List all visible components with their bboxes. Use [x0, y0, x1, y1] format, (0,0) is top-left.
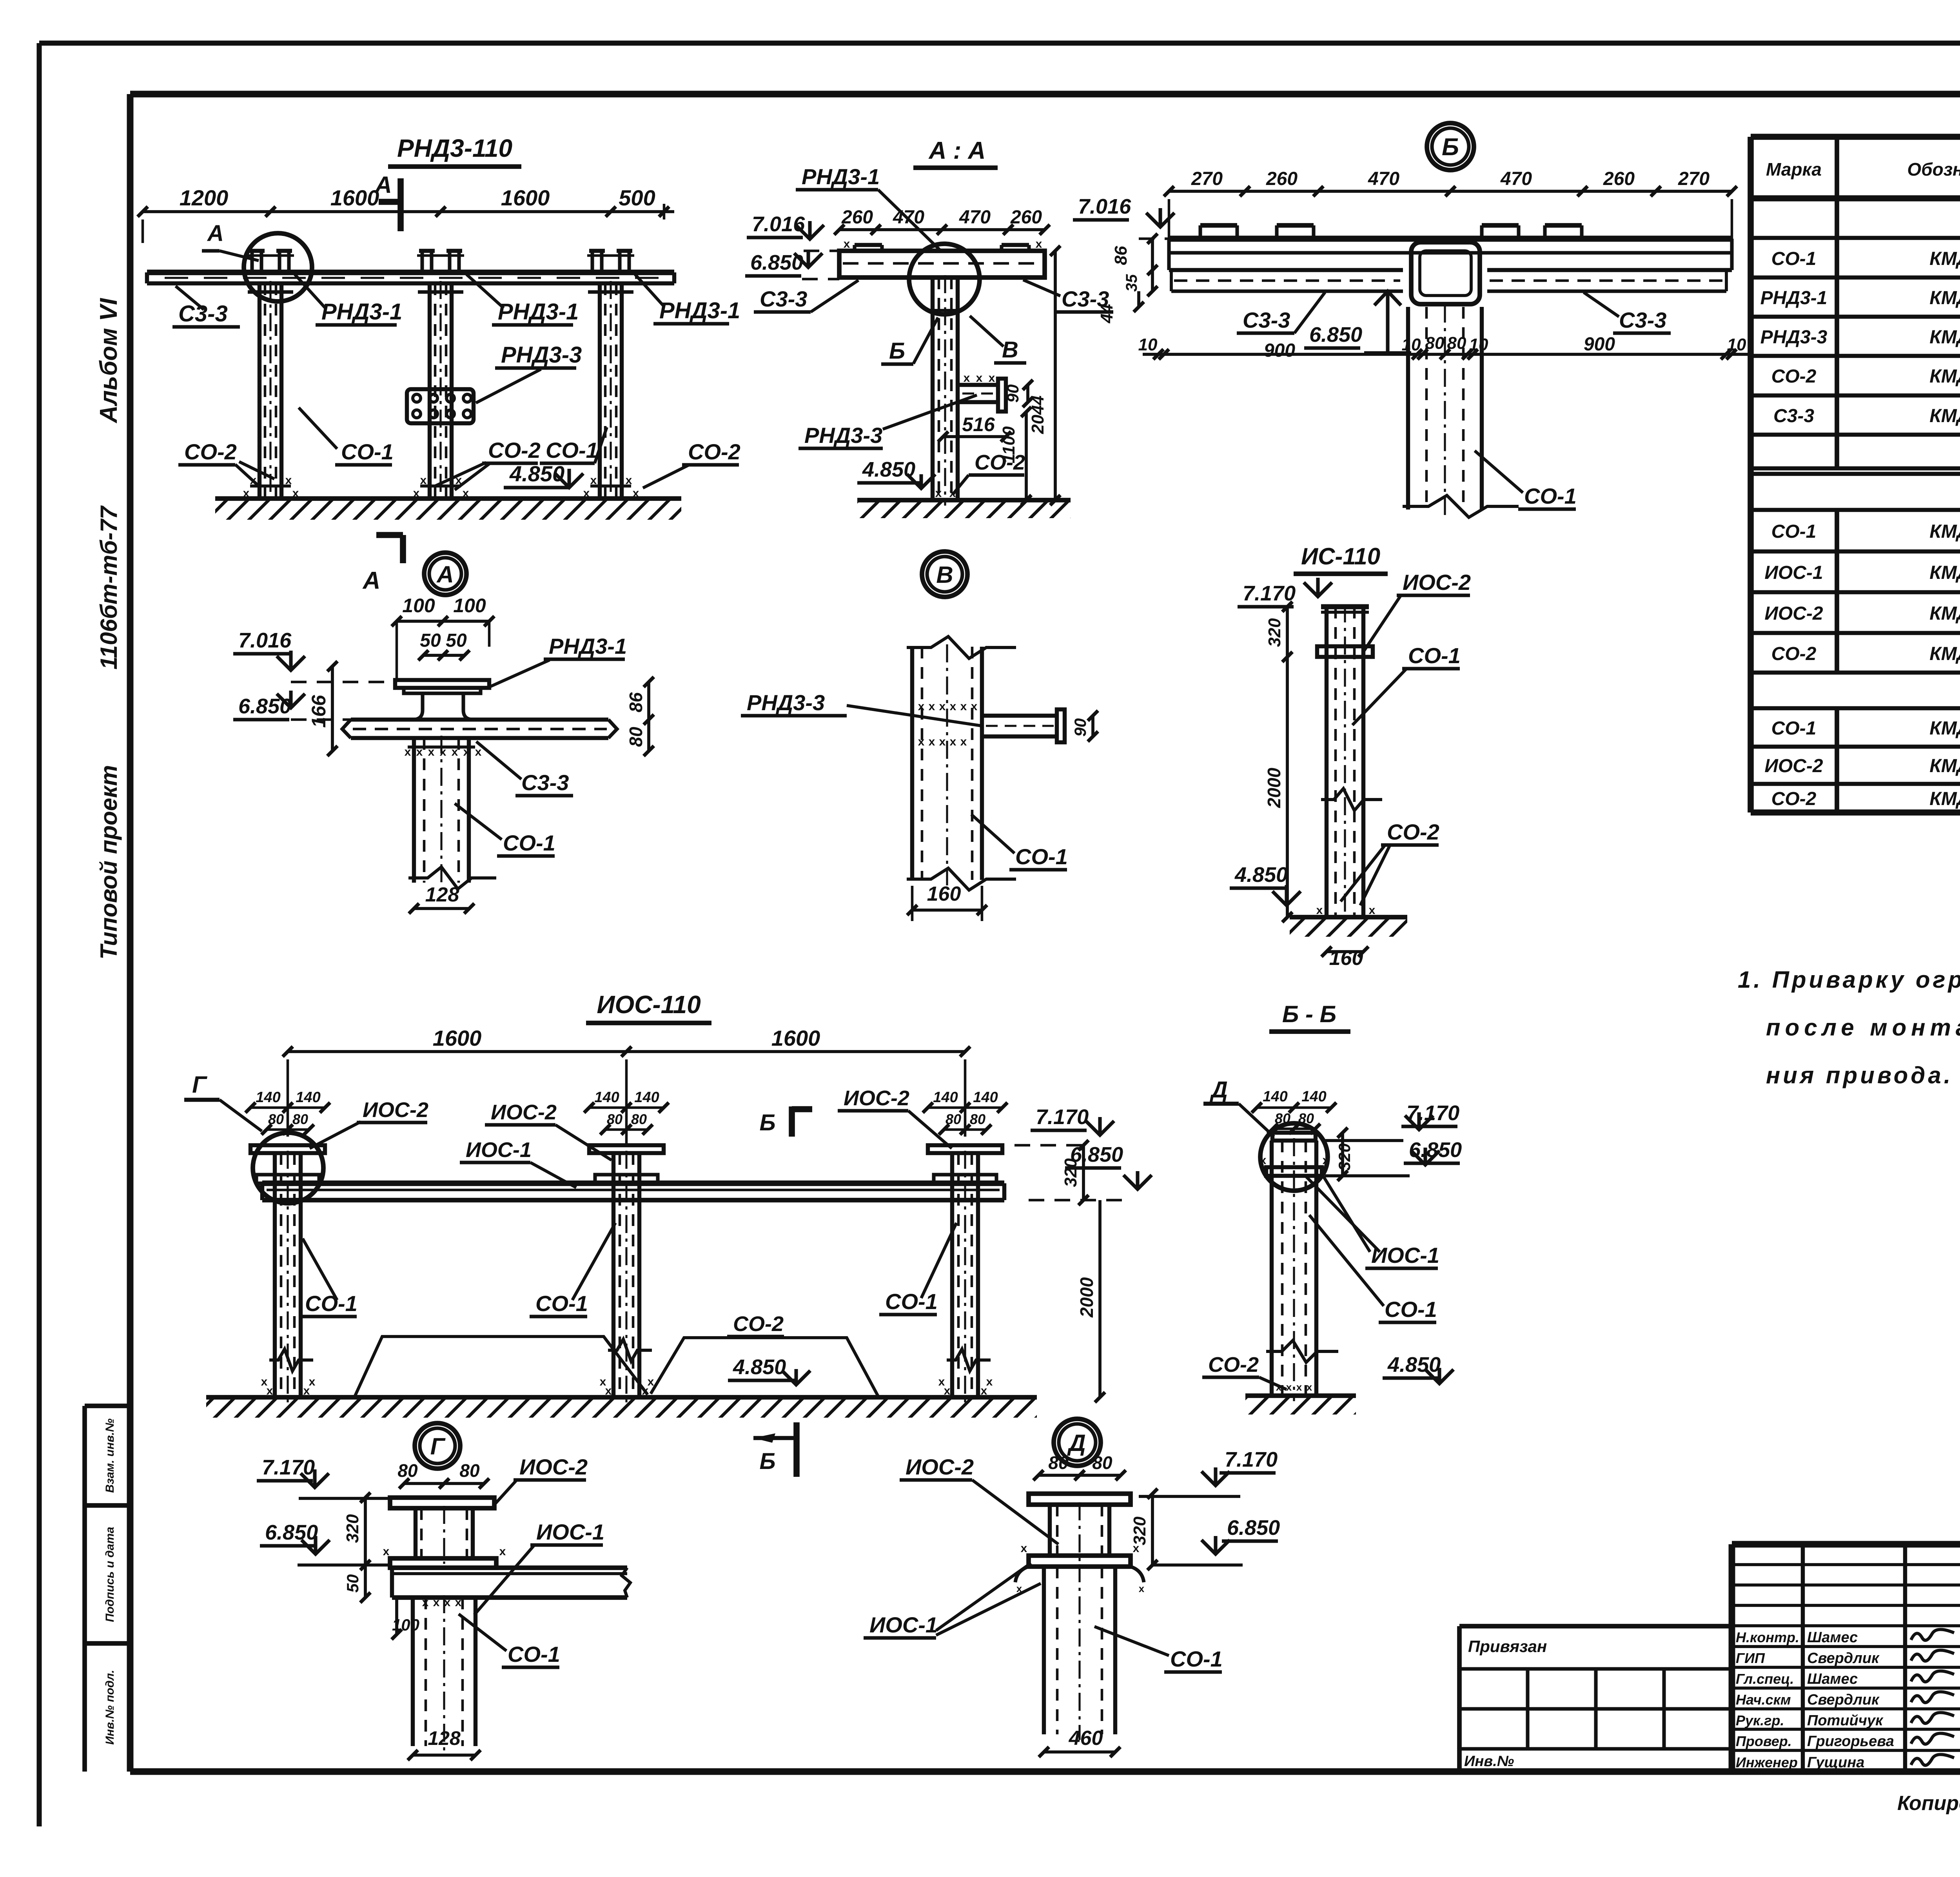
- svg-text:80: 80: [459, 1460, 480, 1481]
- ИОС-110 label СО-2: [727, 1312, 784, 1337]
- svg-text:470: 470: [959, 207, 991, 228]
- svg-text:после монтажа разъединителей: после монтажа разъединителей до присоеди…: [1766, 1014, 1960, 1041]
- title block main frame: [1732, 1544, 1960, 1772]
- ИОС-110 base welds #3: [938, 1375, 993, 1397]
- detail Г dim 50: [343, 1565, 370, 1603]
- svg-text:С3-3: С3-3: [1243, 308, 1290, 332]
- А:А label РНД3-3: [799, 395, 977, 448]
- svg-text:1600: 1600: [501, 185, 550, 210]
- svg-text:СО-2: СО-2: [688, 439, 740, 464]
- svg-text:7.016: 7.016: [1078, 195, 1131, 218]
- svg-text:140: 140: [933, 1089, 958, 1106]
- svg-text:x: x: [452, 745, 458, 758]
- detail В label СО-1: [971, 814, 1068, 870]
- svg-text:470: 470: [1368, 169, 1399, 189]
- table row СО-1 Стойка (ИОС): [1751, 521, 1960, 551]
- svg-text:x: x: [964, 372, 970, 384]
- А:А label В: [970, 316, 1026, 363]
- ИС-110 dim 160: [1321, 947, 1368, 970]
- svg-text:Подпись и дата: Подпись и дата: [103, 1527, 116, 1622]
- detail А label С3-3: [476, 742, 573, 796]
- svg-text:80: 80: [1425, 334, 1445, 353]
- detail А dims 50 50: [418, 630, 470, 660]
- note text line 2: [1766, 1014, 1960, 1041]
- svg-text:КМД л.1: КМД л.1: [1929, 603, 1960, 624]
- svg-text:2044: 2044: [1028, 395, 1047, 434]
- svg-text:КМД л.1: КМД л.1: [1929, 756, 1960, 776]
- ИС-110 elevation 4.850: [1230, 863, 1301, 905]
- svg-text:1. Приварку ограждающих сето: 1. Приварку ограждающих сеток С3-3 произ…: [1738, 967, 1960, 993]
- svg-text:Г: Г: [430, 1433, 446, 1460]
- svg-text:x: x: [929, 700, 935, 713]
- А:А vertical dim 2044: [1028, 246, 1060, 505]
- ИОС-110 elevation 6.850: [1019, 1143, 1152, 1200]
- svg-text:900: 900: [1584, 334, 1615, 355]
- section mark Б bottom: [753, 1422, 797, 1477]
- ИОС-110 base welds #2: [600, 1375, 654, 1397]
- svg-text:270: 270: [1678, 169, 1710, 189]
- Б label С3-3 right: [1584, 292, 1671, 333]
- detail Г dim 128: [408, 1727, 481, 1760]
- Б-Б ground: [1245, 1396, 1356, 1415]
- Б label С3-3 left: [1237, 292, 1325, 333]
- svg-text:128: 128: [425, 883, 459, 906]
- А:А elevation 6.850: [745, 250, 839, 279]
- svg-text:100: 100: [453, 595, 486, 617]
- svg-text:ния привода.: ния привода.: [1766, 1062, 1953, 1088]
- svg-text:КМД л.1: КМД л.1: [1929, 644, 1960, 664]
- ИОС-110 fence СО-2 trapezoid 1: [354, 1337, 648, 1397]
- svg-text:320: 320: [1061, 1158, 1080, 1187]
- svg-text:516: 516: [962, 413, 995, 435]
- svg-text:90: 90: [1071, 718, 1089, 737]
- svg-text:А : А: А : А: [928, 137, 986, 164]
- svg-text:x: x: [590, 474, 597, 487]
- ИОС-110 column СО-1 #1: [275, 1151, 301, 1403]
- svg-text:80: 80: [292, 1111, 308, 1127]
- detail А elevation 6.850: [233, 691, 351, 720]
- detail А collar and weld marks: [405, 745, 482, 758]
- svg-text:86: 86: [1111, 246, 1131, 265]
- svg-text:Нач.скм: Нач.скм: [1736, 1692, 1791, 1708]
- label СО-2 #3: [643, 439, 740, 488]
- svg-text:x: x: [499, 1545, 506, 1558]
- ИОС-110 collar ИОС-2 #1: [256, 1175, 319, 1183]
- svg-text:260: 260: [1010, 207, 1042, 228]
- svg-text:x: x: [844, 238, 850, 250]
- svg-text:ИОС-2: ИОС-2: [363, 1098, 428, 1122]
- svg-text:Привязан: Привязан: [1468, 1637, 1547, 1656]
- table section РНД3-110: [1751, 208, 1960, 238]
- svg-text:СО-1: СО-1: [885, 1289, 938, 1314]
- svg-text:РНД3-1: РНД3-1: [549, 634, 627, 658]
- table row СО-2 Опорный уголок (ИС): [1751, 789, 1960, 812]
- А:А vertical dim 1100: [999, 407, 1031, 505]
- svg-text:РНД3-1: РНД3-1: [321, 299, 402, 325]
- svg-text:470: 470: [1500, 169, 1532, 189]
- svg-text:6.850: 6.850: [265, 1521, 318, 1544]
- svg-text:СО-2: СО-2: [1387, 820, 1439, 844]
- ИОС-110 label СО-1 #1: [299, 1239, 358, 1317]
- detail А grating С3-3 band: [342, 720, 617, 738]
- svg-text:x: x: [309, 1375, 316, 1388]
- svg-text:x: x: [918, 735, 925, 748]
- svg-text:СО-1: СО-1: [1771, 718, 1817, 739]
- binding box Привязан: [1459, 1626, 1732, 1772]
- svg-text:x: x: [960, 700, 967, 713]
- svg-text:Б - Б: Б - Б: [1282, 1001, 1336, 1027]
- detail circle on ИОС column 1: [253, 1133, 323, 1203]
- Б-Б label Д: [1203, 1077, 1274, 1137]
- svg-text:СО-1: СО-1: [1771, 248, 1817, 269]
- section title А:А: [913, 137, 998, 168]
- svg-text:140: 140: [256, 1089, 280, 1106]
- table row С3-3 Ограждающая сетка: [1751, 406, 1960, 435]
- svg-text:10: 10: [1402, 335, 1421, 354]
- svg-text:РНД3-1: РНД3-1: [659, 298, 740, 323]
- label СО-1 #1: [299, 408, 394, 465]
- А:А label С3-3 left: [754, 280, 858, 312]
- svg-text:КМД л.1: КМД л.1: [1929, 366, 1960, 387]
- svg-text:СО-1: СО-1: [546, 438, 598, 462]
- svg-text:x: x: [428, 745, 435, 758]
- svg-text:x: x: [950, 700, 956, 713]
- svg-text:ИОС-1: ИОС-1: [869, 1612, 938, 1637]
- detail Г collar plate: [383, 1545, 506, 1568]
- svg-text:СО-1: СО-1: [503, 831, 555, 855]
- ИОС-110 dim 1600 1600: [283, 1026, 970, 1144]
- ИС-110 collar ИОС-2: [1317, 646, 1373, 657]
- section title Б-Б: [1269, 1001, 1350, 1032]
- table row СО-1 Стойка (ИС): [1751, 718, 1960, 747]
- svg-text:x: x: [989, 372, 995, 384]
- svg-text:РНД3-1: РНД3-1: [498, 299, 579, 325]
- svg-text:900: 900: [1264, 340, 1295, 361]
- detail А top flange РНД3-1 section: [395, 680, 489, 720]
- label РНД3-1 #2: [466, 274, 579, 325]
- ИОС-110 cap plate #1: [250, 1145, 325, 1153]
- label СО-2 #1: [178, 439, 274, 486]
- svg-text:44: 44: [1097, 304, 1116, 324]
- svg-text:2000: 2000: [1076, 1277, 1097, 1318]
- signature table: [1732, 1544, 1960, 1772]
- beam С3-3 grating РНД3-110: [147, 272, 674, 283]
- note text line 1: [1738, 967, 1960, 993]
- Б beam top tabs: [1200, 225, 1582, 239]
- А:А dim 516: [938, 413, 1011, 442]
- detail А label СО-1: [455, 803, 555, 856]
- ИС-110 column СО-1: [1321, 604, 1382, 923]
- А:А vertical dim 90: [1004, 380, 1033, 407]
- svg-text:x: x: [1276, 1381, 1282, 1393]
- ИОС-110 cap plate #3: [928, 1145, 1002, 1153]
- svg-text:А: А: [207, 221, 224, 246]
- svg-text:ИОС-1: ИОС-1: [466, 1138, 532, 1162]
- svg-text:470: 470: [893, 207, 924, 228]
- parts table outer and header: [1751, 137, 1960, 812]
- table section ИС-110: [1751, 680, 1960, 708]
- svg-text:КМД л.1: КМД л.1: [1929, 521, 1960, 542]
- svg-text:x: x: [971, 700, 978, 713]
- svg-text:СО-2: СО-2: [1771, 366, 1817, 387]
- detail Г label ИОС-2: [495, 1454, 588, 1504]
- svg-text:4.850: 4.850: [1387, 1353, 1441, 1376]
- svg-text:Марка: Марка: [1766, 159, 1822, 180]
- svg-text:166: 166: [308, 695, 330, 728]
- svg-text:Д: Д: [1067, 1430, 1085, 1456]
- ИС-110 dim 320: [1265, 602, 1292, 662]
- svg-text:320: 320: [1335, 1143, 1354, 1171]
- base and weld marks column 3: [583, 474, 639, 500]
- svg-text:С3-3: С3-3: [178, 301, 228, 326]
- ИОС-110 dim 2000: [1076, 1200, 1105, 1402]
- svg-text:x: x: [1021, 1542, 1027, 1555]
- svg-text:КМД л.1: КМД л.1: [1929, 789, 1960, 809]
- svg-text:80: 80: [1092, 1453, 1112, 1473]
- ИОС-110 column top dims 140 140 80 80 #1: [245, 1089, 330, 1135]
- clip РНД3-1 on column 2: [417, 251, 464, 272]
- label СО-1 #2: [540, 427, 607, 463]
- detail Г label СО-1: [459, 1614, 560, 1667]
- table empty row and separator: [1751, 468, 1960, 474]
- detail Д column upper: [1050, 1502, 1109, 1561]
- table row ИОС-1 Соединительный уголок (ИОС): [1751, 562, 1960, 592]
- detail Г elevation 6.850: [260, 1521, 388, 1565]
- svg-text:86: 86: [626, 692, 646, 713]
- svg-text:x: x: [1133, 1542, 1140, 1555]
- svg-text:260: 260: [1603, 169, 1635, 189]
- svg-text:СО-1: СО-1: [1408, 643, 1461, 668]
- svg-text:Инженер: Инженер: [1736, 1754, 1798, 1770]
- detail В vertical dim 90: [1071, 711, 1098, 742]
- ИС-110 label ИОС-2: [1364, 570, 1471, 651]
- ИС-110 ground: [1290, 904, 1407, 937]
- svg-text:1106бт-тб-77: 1106бт-тб-77: [96, 505, 122, 669]
- svg-text:1200: 1200: [180, 185, 229, 210]
- Б-Б collar ИОС-1 ring: [1260, 1154, 1329, 1176]
- ИОС-110 label СО-1 #2: [530, 1223, 615, 1317]
- svg-text:x: x: [405, 745, 411, 758]
- svg-text:ИОС-2: ИОС-2: [491, 1101, 557, 1124]
- detail Д callout circle: [1054, 1419, 1101, 1466]
- section mark Б top: [759, 1106, 812, 1137]
- svg-text:С3-3: С3-3: [1619, 308, 1666, 332]
- detail callout circle А: [424, 553, 466, 595]
- ИОС-110 base welds #1: [261, 1375, 316, 1397]
- ИОС-110 column СО-1 #3: [952, 1151, 978, 1403]
- svg-text:СО-1: СО-1: [341, 439, 394, 464]
- svg-text:СО-1: СО-1: [1015, 844, 1068, 869]
- А:А label СО-2: [953, 451, 1025, 495]
- svg-text:x: x: [1286, 1381, 1292, 1393]
- detail А dims 100 100: [392, 595, 494, 680]
- svg-text:ИОС-2: ИОС-2: [1403, 570, 1471, 595]
- svg-text:Рук.гр.: Рук.гр.: [1736, 1712, 1784, 1728]
- detail А dims 86 80 right: [626, 677, 654, 756]
- svg-text:КМД л.8: КМД л.8: [1929, 406, 1960, 426]
- svg-text:x: x: [261, 1375, 268, 1388]
- table row ИОС-2 Опорная конструкция (ИОС): [1751, 603, 1960, 633]
- svg-text:x: x: [600, 1375, 606, 1388]
- svg-text:КМД л.1: КМД л.1: [1929, 288, 1960, 308]
- svg-text:КМД л.1: КМД л.1: [1929, 562, 1960, 583]
- svg-text:160: 160: [927, 883, 961, 905]
- А:А bracket РНД3-3 arm: [958, 372, 1006, 412]
- ИОС-110 label ИОС-2 #1: [310, 1098, 428, 1148]
- svg-text:Инв.№ подл.: Инв.№ подл.: [103, 1670, 116, 1745]
- svg-text:x: x: [935, 487, 942, 500]
- svg-text:Потийчук: Потийчук: [1807, 1712, 1884, 1729]
- svg-text:Г: Г: [192, 1072, 208, 1098]
- Б elevation 7.016: [1073, 195, 1174, 239]
- svg-text:x: x: [1139, 1583, 1145, 1594]
- svg-text:x: x: [1316, 904, 1323, 917]
- svg-text:СО-2: СО-2: [488, 438, 541, 462]
- svg-text:СО-1: СО-1: [1771, 521, 1817, 542]
- detail А vertical dim 166: [308, 661, 338, 756]
- Б bottom dim line 10 900 10 80 80 10 900 10: [1138, 334, 1748, 361]
- label СО-2 #2: [435, 438, 541, 490]
- ИС-110 elevation 7.170: [1238, 578, 1332, 607]
- view title РНД3-110: [388, 134, 521, 167]
- svg-text:Свердлик: Свердлик: [1807, 1692, 1880, 1708]
- svg-text:ГИП: ГИП: [1736, 1650, 1765, 1666]
- svg-text:80: 80: [970, 1111, 985, 1127]
- svg-text:ИОС-1: ИОС-1: [1371, 1243, 1439, 1268]
- svg-text:10: 10: [1138, 335, 1158, 354]
- column СО-1 #2 РНД3-110: [418, 281, 463, 504]
- detail Г elevation 7.170: [257, 1456, 388, 1498]
- svg-text:x: x: [626, 474, 632, 487]
- view title ИС-110: [1294, 543, 1388, 574]
- detail Г dims 80 80: [397, 1460, 489, 1489]
- А:А dims 260 470 470 260: [834, 207, 1050, 235]
- svg-text:1600: 1600: [433, 1026, 482, 1050]
- section mark А top: [374, 172, 401, 231]
- svg-text:4.850: 4.850: [1234, 863, 1288, 887]
- svg-text:x: x: [938, 1375, 945, 1388]
- svg-text:100: 100: [402, 595, 435, 617]
- svg-text:СО-2: СО-2: [1208, 1353, 1259, 1376]
- svg-text:СО-1: СО-1: [1385, 1297, 1437, 1322]
- dimension line 1200 1600 1600 500: [138, 185, 674, 243]
- svg-text:80: 80: [631, 1111, 647, 1127]
- svg-text:РНД3-3: РНД3-3: [501, 342, 582, 368]
- ИОС-110 elevation 4.850: [728, 1355, 810, 1385]
- svg-text:1600: 1600: [771, 1026, 820, 1050]
- column СО-1 #1 РНД3-110: [248, 281, 293, 504]
- svg-text:КМД л.1: КМД л.1: [1929, 327, 1960, 348]
- note text line 3: [1766, 1062, 1953, 1088]
- svg-text:140: 140: [594, 1089, 619, 1106]
- table row РНД3-3 Конструкция под привод: [1751, 327, 1960, 356]
- label РНД3-1 #1: [295, 274, 402, 325]
- svg-text:Б: Б: [1442, 134, 1459, 161]
- ИОС-110 label ИОС-1: [460, 1138, 576, 1188]
- svg-text:СО-2: СО-2: [184, 439, 237, 464]
- table section ИОС-110: [1751, 482, 1960, 510]
- detail Г column lower shaft: [413, 1595, 475, 1752]
- Б column cross-section channel: [1411, 242, 1480, 304]
- ИОС-110 beam ИОС-1: [262, 1183, 1004, 1200]
- Б elevation 6.850: [1304, 291, 1411, 353]
- svg-text:Шамес: Шамес: [1807, 1671, 1858, 1687]
- А:А beam РНД3-1 side view: [839, 238, 1045, 277]
- ИОС-110 column top dims 140 140 80 80 #3: [923, 1089, 1007, 1135]
- svg-text:СО-1: СО-1: [508, 1642, 560, 1667]
- svg-text:Взам. инв.№: Взам. инв.№: [103, 1418, 116, 1493]
- svg-text:СО-1: СО-1: [535, 1291, 588, 1316]
- ИОС-110 collar ИОС-2 #2: [595, 1175, 658, 1183]
- Б-Б detail circle: [1260, 1123, 1328, 1191]
- table row СО-2 Опорный уголок (ИОС): [1751, 644, 1960, 673]
- detail В dim 160: [907, 883, 987, 921]
- svg-text:ИОС-110: ИОС-110: [597, 990, 701, 1019]
- Б dims 86 35 44 left: [1097, 234, 1158, 323]
- detail В column СО-1: [907, 637, 1016, 890]
- Б-Б label СО-1: [1309, 1215, 1437, 1322]
- svg-text:140: 140: [296, 1089, 320, 1106]
- svg-text:260: 260: [841, 207, 873, 228]
- detail Д label СО-1: [1094, 1627, 1223, 1672]
- detail Д dim 320: [1130, 1489, 1158, 1570]
- ИОС-110 collar ИОС-2 #3: [934, 1175, 996, 1183]
- svg-text:50: 50: [446, 630, 467, 651]
- svg-text:x: x: [420, 474, 427, 487]
- callout circle Б: [1427, 123, 1474, 170]
- ИОС-110 label ИОС-2 #3: [838, 1086, 952, 1148]
- svg-text:4.850: 4.850: [733, 1355, 786, 1379]
- ИОС-110 fence СО-2 trapezoid 2: [651, 1338, 878, 1396]
- Б-Б elevation 4.850: [1383, 1353, 1454, 1384]
- svg-text:СО-1: СО-1: [1170, 1647, 1223, 1671]
- detail Д label ИОС-2: [900, 1454, 1058, 1544]
- ИОС-110 ground: [206, 1397, 1037, 1418]
- detail Д column lower: [1044, 1564, 1115, 1740]
- svg-text:Б: Б: [759, 1110, 775, 1135]
- svg-text:50: 50: [343, 1574, 362, 1593]
- svg-text:10: 10: [1727, 335, 1746, 354]
- label РНД3-3 with plate leader: [476, 342, 582, 403]
- А:А label РНД3-1: [796, 164, 941, 251]
- Б net С3-3 bands dashed: [1171, 270, 1726, 291]
- А:А detail circle at joint: [909, 244, 980, 314]
- detail Д cap plate: [1029, 1494, 1131, 1505]
- svg-text:А: А: [362, 567, 381, 594]
- svg-text:2000: 2000: [1264, 767, 1284, 808]
- label С3-3 РНД3-110: [172, 286, 240, 327]
- svg-text:С3-3: С3-3: [1773, 406, 1814, 426]
- svg-text:1600: 1600: [330, 185, 379, 210]
- Б-Б elevation 7.170: [1325, 1101, 1459, 1141]
- detail В weld marks top: [918, 700, 978, 748]
- svg-text:460: 460: [1069, 1727, 1103, 1750]
- svg-text:РНД3-1: РНД3-1: [802, 164, 880, 189]
- Б-Б dims 140 140 80 80: [1252, 1088, 1336, 1134]
- svg-text:7.170: 7.170: [1243, 582, 1296, 605]
- table row РНД3-1 Траверса: [1751, 288, 1960, 317]
- Б column СО-1 below: [1403, 305, 1519, 517]
- svg-text:6.850: 6.850: [1309, 323, 1362, 346]
- elevation 4.850 РНД3-110: [504, 461, 583, 488]
- svg-text:С3-3: С3-3: [521, 770, 569, 795]
- detail Г dim 320: [343, 1493, 370, 1570]
- base and weld marks column 1: [243, 474, 299, 500]
- svg-text:4.850: 4.850: [862, 458, 915, 481]
- Б-Б label ИОС-1: [1305, 1174, 1439, 1268]
- svg-text:320: 320: [1265, 618, 1284, 647]
- column СО-1 #3 РНД3-110: [588, 281, 633, 504]
